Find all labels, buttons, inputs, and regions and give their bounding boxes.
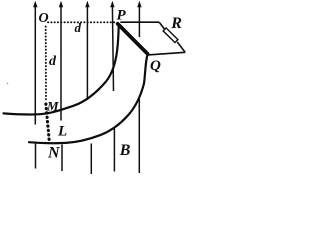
svg-text:B: B: [119, 142, 131, 159]
svg-text:R: R: [170, 15, 182, 32]
dotted line O down to M (vertical, length d): [45, 27, 47, 102]
rail 1 (upper curved rail, M to P): [4, 25, 119, 114]
svg-text:N: N: [47, 145, 61, 162]
svg-text:M: M: [46, 99, 59, 114]
rod PQ (thick sliding conductor): [118, 24, 148, 54]
speck (scan noise): [7, 83, 9, 85]
svg-text:O: O: [39, 11, 49, 26]
field line B2 (x=61) with arrow: [59, 1, 63, 171]
wire: lead A to resistor: [159, 22, 165, 30]
field line B3 (x=87.4) with arrow: [85, 1, 91, 174]
resistor R body: [163, 28, 178, 43]
field line B5 (x=139.4) with arrow: [137, 1, 141, 173]
wire: bottom edge C to Q: [148, 52, 185, 55]
svg-text:Q: Q: [150, 58, 161, 74]
svg-text:d: d: [49, 54, 57, 69]
wire: top edge P to corner A: [120, 21, 159, 23]
svg-text:P: P: [117, 8, 127, 24]
rail 2 (lower curved rail, N to Q): [29, 56, 147, 143]
svg-text:L: L: [57, 123, 67, 139]
dotted rod MN (initial position, thick dots): [46, 104, 49, 141]
dotted line O to P (horizontal, length d): [48, 21, 116, 23]
field line B4 (x=112.6) with arrow: [110, 1, 114, 172]
svg-text:d: d: [75, 20, 82, 35]
wire: lead resistor to corner C: [177, 42, 185, 52]
field line B1 (x=35) with arrow: [33, 1, 37, 169]
